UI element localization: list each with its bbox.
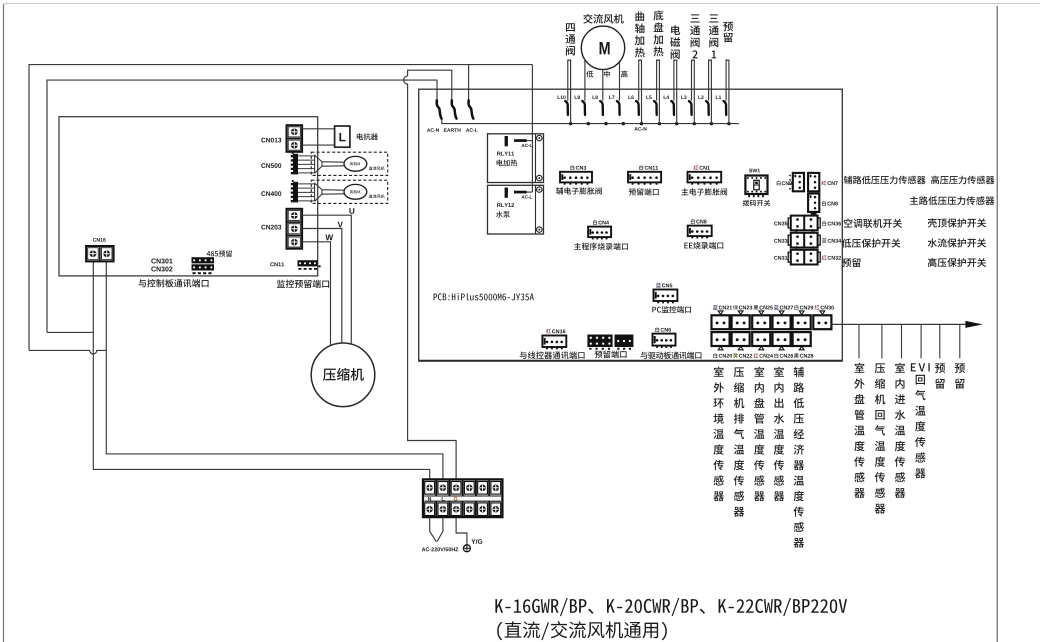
label terminal L6 <box>628 96 633 100</box>
terminal L2 receptacle <box>706 101 709 115</box>
label 白CN6 <box>655 327 671 332</box>
label compressor 压缩机 <box>323 368 364 381</box>
wire load pair cap L6 <box>638 59 642 61</box>
junction dot AC-N bus 10 <box>727 122 731 126</box>
label AC fan 交流风机 <box>583 14 623 24</box>
label terminal L2 <box>698 96 703 99</box>
label 红CN7 <box>822 181 838 186</box>
arrowhead sensor bus <box>965 321 982 328</box>
relay RLY11 coil bar <box>505 136 508 146</box>
fan 1 motor ellipse <box>344 156 367 171</box>
label CN11 <box>270 262 284 266</box>
frame right border <box>996 6 998 642</box>
wire load pair cap L10 <box>567 59 571 61</box>
wire load pair cap L1 <box>726 59 730 61</box>
marker triangle CN30 <box>820 311 825 315</box>
wire AC-L loop (outer box top/left) <box>29 65 532 351</box>
wire power L entry <box>437 517 443 541</box>
label CN35 <box>774 222 787 226</box>
wire outer box bottom to CN16 right wire (hop over left wire) <box>29 350 106 354</box>
label terminal G <box>454 497 458 501</box>
PCB main board outline <box>419 89 843 361</box>
label 预留 (CN31) <box>842 258 861 267</box>
label 辅路低压压力传感器 <box>844 176 926 185</box>
terminal L6 receptacle <box>636 101 639 115</box>
connector 蓝CN27 <box>773 315 791 329</box>
label 白CN4 <box>593 220 609 225</box>
wire sensor drop 3 <box>901 324 903 358</box>
terminal L5 receptacle <box>654 101 657 115</box>
relay RLY11 module box <box>488 134 544 183</box>
connector CN8 <box>808 194 819 212</box>
terminal AC-L receptacle <box>468 100 473 118</box>
marker triangles between rows <box>794 229 815 249</box>
label V <box>338 222 343 228</box>
junction dot AC-N bus 9 <box>710 122 714 126</box>
label AC-N input <box>427 128 439 132</box>
terminal L7 receptacle <box>617 101 620 115</box>
label CN31 <box>774 256 787 260</box>
connector 红CN30 <box>813 315 831 329</box>
label sensor column 室外盘管温度传感器 <box>854 363 865 498</box>
DIP switch SW1 <box>745 176 767 198</box>
label PC监控端口 <box>652 306 691 313</box>
label CN500 <box>261 163 281 168</box>
marker triangle CN29 <box>799 311 804 315</box>
label 白CN8 EE <box>691 219 707 224</box>
junction dot AC-N bus 3 <box>604 122 608 126</box>
label 与线控器通讯端口 <box>520 351 585 359</box>
PCB board bottom edge (thick) <box>419 360 842 362</box>
wire load live into L1 <box>725 60 727 100</box>
wire sensor drop 2 <box>881 324 883 358</box>
connector CN18 EE <box>688 226 712 239</box>
connector CN400 <box>291 180 298 202</box>
marker triangle CN26 <box>779 346 784 350</box>
wire load pair cap L4 <box>673 59 677 61</box>
label crankcase heater 曲轴加热 <box>635 11 645 57</box>
label 白CN36 <box>822 221 841 226</box>
label sensor column EVI回气温度传感器 <box>911 363 930 478</box>
reactor box L <box>335 126 350 147</box>
label chassis heater 底盘加热 <box>653 10 663 56</box>
wire AC fan speed tap to L8 <box>602 70 604 101</box>
junction dot AC-N bus 2 <box>587 122 591 126</box>
label sensor column 室内出水温度传感器 <box>774 367 785 501</box>
junction dot AC-N bus 5 <box>640 122 644 126</box>
marker triangle CN23 <box>738 311 743 315</box>
label CN302 <box>151 267 172 272</box>
label 高压压力传感器 <box>931 176 994 185</box>
marker triangle CN25 <box>759 311 764 315</box>
label fan 2 风机M <box>350 190 360 193</box>
terminal L10 receptacle <box>565 101 568 115</box>
connector 黑CN28 <box>793 332 811 346</box>
label 与驱动板通讯端口 <box>641 352 702 359</box>
label 白CN20 <box>713 353 732 358</box>
label 黑CN28 <box>794 353 813 358</box>
connector CN203 <box>287 209 303 249</box>
wire power N entry <box>430 517 437 541</box>
terminal L1 receptacle <box>724 101 727 115</box>
connector 白CN20 <box>712 332 730 346</box>
relay RLY11 terminal column <box>535 134 537 183</box>
label 水流保护开关 <box>928 238 986 247</box>
connector 白CN26 <box>773 332 791 346</box>
marker triangle CN21 <box>718 311 723 315</box>
connector CN5 <box>654 290 678 304</box>
label EE烧录端口 <box>684 242 723 249</box>
label fan speed high 高 <box>621 71 627 78</box>
label sensor column 预留 b <box>955 363 965 388</box>
relay RLY12 coil bar <box>505 188 508 198</box>
marker triangle CN27 <box>779 311 784 315</box>
relay RLY11 contact bar <box>514 139 527 142</box>
connector CN301/302 pins <box>193 272 212 274</box>
junction dot AC-N bus 4 <box>622 122 626 126</box>
label relay RLY11 AC-L <box>521 144 532 147</box>
label sensor column 预留 a <box>935 363 945 388</box>
connector CN7 <box>808 173 819 191</box>
wire CN013 to reactor upper <box>302 128 335 130</box>
label solenoid valve 电磁阀 <box>670 25 680 59</box>
label 红CN1 <box>694 165 710 170</box>
relay RLY12 terminal column <box>535 185 537 234</box>
label terminal L3 <box>681 96 686 100</box>
label AC-220V/50HZ <box>422 547 459 551</box>
connector CN1 <box>688 172 722 185</box>
label 绿CN23 <box>733 305 752 310</box>
wire AC fan speed tap to L9 <box>584 60 586 101</box>
wire CN16 left to terminal N <box>93 261 429 480</box>
label AC-N bus <box>634 127 646 131</box>
label 监控预留端口 <box>277 280 329 288</box>
terminal AC-N receptacle <box>437 100 442 118</box>
label terminal N <box>428 497 431 501</box>
wire ground from G <box>456 517 467 545</box>
connector 蓝CN21 <box>712 315 730 329</box>
connector 白CN29 <box>793 315 811 329</box>
connector CN35/CN36 <box>788 216 820 231</box>
label CN013 <box>261 138 281 143</box>
label L reactor <box>339 133 345 141</box>
connector CN301/CN302 header <box>192 257 215 270</box>
fan 1 dashed enclosure <box>311 152 387 175</box>
frame top border <box>4 3 1040 5</box>
frame left border <box>3 4 5 642</box>
title subtitle <box>497 621 667 640</box>
label four-way valve 四通阀 <box>565 23 575 55</box>
label sensor column 压缩机回气温度传感器 <box>875 363 886 513</box>
label 主电子膨胀阀 <box>681 188 727 195</box>
wire second box bottom to CN16 left wire <box>47 331 93 333</box>
wire load neutral at L1 to bus <box>728 60 730 123</box>
connector CN33/CN34 <box>788 233 820 248</box>
junction dot AC-N bus 1 <box>569 122 573 126</box>
label PCB:HiPlus5000M6-JY35A <box>434 293 534 300</box>
wire CN16 right to terminal L <box>106 261 443 480</box>
terminal block TB1 <box>423 479 502 517</box>
label terminal L1 <box>716 96 721 99</box>
terminal L8 receptacle <box>600 101 603 115</box>
label sensor column 室外环境温度传感器 <box>713 367 724 501</box>
connector CN31/CN32 <box>788 250 820 265</box>
connector 黑CN25 <box>752 315 770 329</box>
label fan speed low 低 <box>586 71 593 78</box>
label fan 1 直流风机 <box>369 167 385 171</box>
wire CN013 to reactor lower <box>302 144 335 146</box>
label 红CN32 <box>822 255 841 260</box>
marker triangle CN20 <box>718 346 723 350</box>
ground symbol Y/G <box>463 545 470 552</box>
relay RLY11 screw top <box>537 135 543 141</box>
label sensor column 室内进水温度传感器 <box>895 363 906 498</box>
label 高压保护开关 <box>928 258 986 267</box>
wire sensor drop 1 <box>858 324 860 358</box>
label sensor column 压缩机排气温度传感器 <box>734 367 745 516</box>
wire AC-L input drop <box>468 65 470 101</box>
label sensor column 辅路低压经济器温度传感器 <box>793 367 804 548</box>
wire load neutral at L5 to bus <box>658 60 660 123</box>
label fan 2 直流风机 <box>369 195 385 199</box>
label 黄CN22 <box>733 353 752 358</box>
label 白CN9 <box>777 181 792 186</box>
label terminal L7 <box>609 96 614 99</box>
connector 黄CN22 <box>732 332 750 346</box>
label terminal L9 <box>575 96 580 100</box>
label RLY11 <box>497 152 514 156</box>
label 主路低压压力传感器 <box>910 196 995 205</box>
label RLY12 <box>497 203 514 207</box>
label fan 1 风机M <box>350 162 360 165</box>
label RLY12 load 水泵 <box>496 211 510 218</box>
wire relay RLY11 contact to AC-L <box>527 140 533 142</box>
wire sensor drop 5 <box>939 324 941 358</box>
label AC-L input <box>466 128 478 132</box>
junction dot AC-N bus 6 <box>658 122 662 126</box>
label 蓝CN5 <box>656 283 672 288</box>
label 蓝CN27 <box>774 305 793 310</box>
label EARTH input <box>444 128 461 131</box>
wire V phase <box>302 229 342 344</box>
fan 2 motor ellipse <box>344 184 367 199</box>
label 蓝CN34 <box>822 238 841 243</box>
label relay RLY12 AC-L <box>521 195 532 198</box>
wire sensor drop 6 <box>959 324 961 358</box>
wire load live into L4 <box>673 60 675 100</box>
connector CN11 pins <box>298 265 320 270</box>
marker triangle CN22 <box>738 346 743 350</box>
wire relay RLY12 contact to AC-L <box>527 191 533 193</box>
wire load live into L6 <box>638 60 640 100</box>
relay RLY11 screw bottom <box>537 175 543 181</box>
wire load neutral at L10 to bus <box>570 60 572 123</box>
connector CN11 reserve port <box>628 172 661 185</box>
connector CN6 <box>653 334 676 348</box>
label W <box>325 235 333 241</box>
label 白CN8 <box>822 201 838 206</box>
fan 2 cable funnel <box>315 183 345 202</box>
connector CN500 <box>291 152 298 174</box>
label terminal L <box>442 497 445 501</box>
label 辅电子膨胀阀 <box>556 187 602 194</box>
AC fan motor circle M <box>581 26 624 69</box>
label terminal L4 <box>664 96 669 99</box>
wire AC fan speed tap to L7 <box>619 62 621 101</box>
label 红CN24 <box>754 353 773 358</box>
terminal L3 receptacle <box>689 101 692 115</box>
label three-way valve 2 三通阀2 <box>690 14 700 58</box>
wire load neutral at L2 to bus <box>710 60 712 123</box>
label terminal L10 <box>558 96 566 100</box>
label CN203 <box>261 225 281 230</box>
label 红CN16 <box>546 329 565 334</box>
wire load live into L5 <box>656 60 658 100</box>
label SW1 <box>749 169 760 173</box>
label 预留端口 (CN11) <box>629 188 659 195</box>
connector CN013 <box>287 125 303 152</box>
label 485预留 <box>207 250 232 257</box>
label 蓝CN21 <box>713 305 732 310</box>
wire load live into L3 <box>691 60 693 100</box>
label 预留端口 <box>595 350 627 358</box>
label 白CN26 <box>774 353 793 358</box>
wire AC-N loop (second box top/left) <box>47 80 437 332</box>
label CN400 <box>261 191 281 196</box>
terminal L4 receptacle <box>671 101 674 115</box>
label 壳顶保护开关 <box>928 218 986 227</box>
wire load pair cap L2 <box>708 59 712 61</box>
connector reserve port (double) <box>587 335 633 350</box>
wire U phase <box>302 215 351 344</box>
wire load pair cap L3 <box>691 59 695 61</box>
wire load live into L10 <box>567 60 569 100</box>
wire AC-N bus <box>442 119 739 124</box>
wire AC-L drop to relay contacts <box>531 65 533 192</box>
label 与控制板通讯端口 <box>138 279 208 287</box>
relay RLY12 contact bar <box>514 191 527 194</box>
fan 2 dashed enclosure <box>311 180 387 203</box>
wires CN500 to fan 1 <box>298 156 315 173</box>
connector CN4 <box>588 227 611 240</box>
wire load neutral at L4 to bus <box>676 60 678 123</box>
label fan speed mid 中 <box>604 71 610 78</box>
label 白CN11 <box>639 165 658 170</box>
label CN33 <box>774 239 787 243</box>
wire EARTH riser top <box>408 70 452 100</box>
label terminal L5 <box>646 96 651 99</box>
wire W phase <box>302 242 330 346</box>
label RLY11 load 电加热 <box>497 160 518 167</box>
terminal EARTH receptacle <box>452 100 457 118</box>
label 白CN3 <box>571 165 587 170</box>
label Y/G <box>471 539 482 544</box>
label 拨码开关 <box>743 200 770 206</box>
label CN301 <box>151 259 172 264</box>
connector CN9 <box>793 173 804 191</box>
connector CN16 <box>86 246 114 261</box>
label CN16 <box>93 238 106 242</box>
label 红CN30 <box>815 305 834 310</box>
wire load neutral at L3 to bus <box>693 60 695 123</box>
relay RLY12 module box <box>488 185 544 234</box>
label reactor 电抗器 <box>357 133 378 140</box>
marker triangle CN24 <box>759 346 764 350</box>
connector CN3 <box>560 172 592 185</box>
wire EARTH long drop with hop, to terminal G <box>404 76 457 480</box>
label 黑CN25 <box>754 305 773 310</box>
junction dot AC-N bus 7 <box>675 122 679 126</box>
relay RLY12 screw top <box>537 187 543 193</box>
wire load live into L2 <box>708 60 710 100</box>
label 主程序烧录端口 <box>574 243 628 250</box>
relay RLY12 screw bottom <box>537 227 543 233</box>
wires CN400 to fan 2 <box>298 184 315 201</box>
label 白CN29 <box>795 305 814 310</box>
label terminal L8 <box>593 96 598 100</box>
title model list <box>495 598 847 616</box>
label reserved 预留 (L1) <box>723 22 733 42</box>
fan 1 cable funnel <box>315 155 345 174</box>
marker triangle CN28 <box>799 346 804 350</box>
connector CN11 header <box>298 260 318 266</box>
label M motor <box>600 42 610 54</box>
connector CN16 comm <box>542 336 566 350</box>
wire load neutral at L6 to bus <box>641 60 643 123</box>
label 空调联机开关 <box>844 219 902 228</box>
label U <box>349 208 354 214</box>
label three-way valve 1 三通阀1 <box>709 14 719 58</box>
compressor circle <box>311 343 375 407</box>
label 低压保护开关 <box>842 239 901 248</box>
junction dot AC-N bus 8 <box>693 122 697 126</box>
label sensor column 室内盘管温度传感器 <box>754 367 765 501</box>
wire sensor bus to right <box>831 323 966 325</box>
wire load pair cap L5 <box>656 59 660 61</box>
wire sensor drop 4 <box>920 324 922 358</box>
connector 绿CN23 <box>732 315 750 329</box>
device box (outdoor unit electrics) <box>59 117 318 276</box>
terminal L9 receptacle <box>582 101 585 115</box>
connector 红CN24 <box>752 332 770 346</box>
